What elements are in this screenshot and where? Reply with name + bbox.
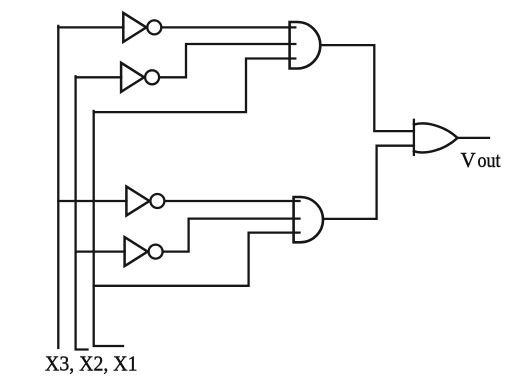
wire inverter U1 output to AND U5 input A	[162, 26, 295, 28]
wire rail X1 to AND U5 input C	[94, 59, 296, 113]
inverter U1	[123, 13, 161, 42]
input rail X1	[94, 111, 123, 346]
OR gate U7 back bar	[413, 120, 415, 155]
input rail X3	[57, 26, 59, 348]
OR gate U7 body	[414, 123, 458, 152]
AND gate U6	[294, 197, 323, 242]
wire AND U5 output to OR U7 top input	[320, 45, 414, 131]
wire inverter U2 output to AND U5 input B	[160, 44, 295, 77]
wire inverter U1 input from rail X3	[58, 26, 123, 28]
wire inverter U4 output to AND U6 input B	[164, 219, 300, 252]
wire AND U6 output to OR U7 bottom input	[323, 146, 414, 219]
wire inverter U3 output to AND U6 input A	[166, 200, 300, 202]
wire inverter U4 input from rail X2	[76, 250, 125, 252]
wire inverter U2 input from rail X2	[76, 76, 122, 78]
svg-text:V: V	[461, 148, 476, 172]
AND gate U5	[290, 22, 321, 69]
inverter U4	[125, 237, 163, 266]
wire output Vout	[458, 137, 490, 139]
input rail X2	[76, 76, 88, 349]
svg-text:X3, X2, X1: X3, X2, X1	[45, 352, 138, 376]
wire rail X1 to AND U6 input C	[94, 233, 300, 286]
inverter U2	[121, 63, 159, 92]
svg-text:out: out	[478, 148, 501, 172]
wire inverter U3 input from rail X3	[58, 200, 126, 202]
inverter U3	[126, 187, 164, 216]
